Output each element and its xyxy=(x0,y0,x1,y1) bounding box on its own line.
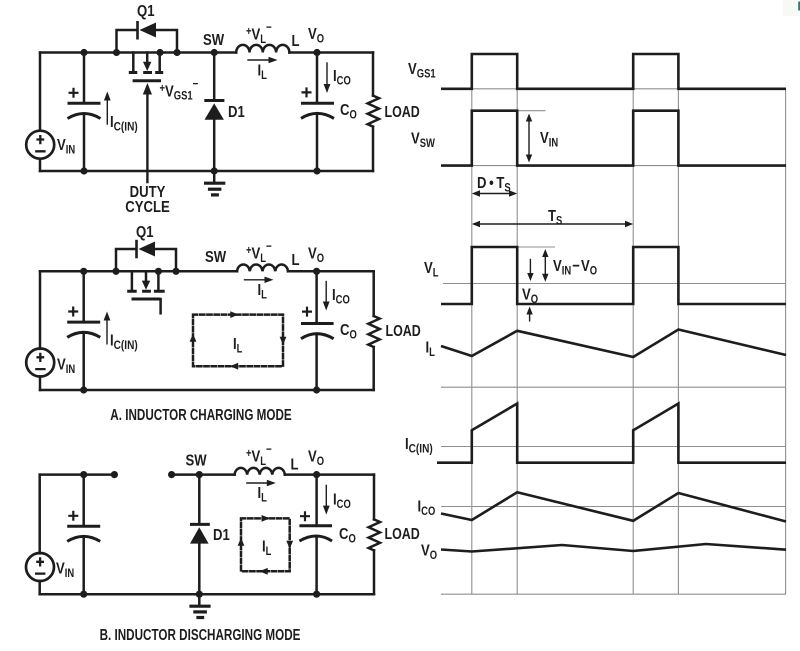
waveform VGS1 xyxy=(441,54,786,89)
current arrow IC(IN) (main) xyxy=(106,99,108,124)
junction D1 bottom (main) xyxy=(211,167,218,174)
capacitor CIN (main) xyxy=(83,53,86,104)
voltage source VIN (B) xyxy=(26,553,54,581)
svg-text:D1: D1 xyxy=(228,104,245,121)
node V0 junction (A) xyxy=(313,268,320,275)
voltage source VIN (A) xyxy=(26,349,54,377)
transistor Q1 (main) body diode xyxy=(117,30,178,53)
svg-text:A. INDUCTOR CHARGING MODE: A. INDUCTOR CHARGING MODE xyxy=(110,405,291,423)
svg-text:SW: SW xyxy=(203,32,224,49)
current arrow ICO (B) xyxy=(325,485,327,508)
transistor Q1 (main) MOSFET xyxy=(132,53,135,71)
junction Q1 body (main) xyxy=(173,49,180,56)
waveform IL xyxy=(441,330,786,358)
arrow V0 up xyxy=(529,313,531,322)
wire top rail main xyxy=(40,51,373,54)
wire top rail B left segment xyxy=(40,473,115,476)
svg-text:L: L xyxy=(291,456,299,473)
svg-text:SW: SW xyxy=(186,452,207,469)
junction C0 bottom (main) xyxy=(313,167,320,174)
junction CIN top (A) xyxy=(80,268,87,275)
junction CIN bottom (main) xyxy=(80,167,87,174)
inductor L (main) xyxy=(236,45,289,53)
gridline vertical t3 xyxy=(677,54,679,594)
svg-text:Q1: Q1 xyxy=(136,224,154,241)
wire top rail B right segment xyxy=(172,473,374,476)
junction CIN top (B) xyxy=(80,471,87,478)
svg-text:D1: D1 xyxy=(213,527,230,544)
wire bottom rail A xyxy=(40,389,374,392)
waveform VSW xyxy=(441,111,786,166)
node V0 junction (B) xyxy=(313,471,320,478)
node SW junction (main) xyxy=(211,49,218,56)
waveform ICO xyxy=(441,492,786,521)
wire left branch B xyxy=(38,475,41,595)
arrow V0 down xyxy=(529,259,531,275)
wire bottom rail B xyxy=(40,593,374,596)
reference line VL top xyxy=(518,246,555,248)
current arrow IL (main) xyxy=(248,59,270,61)
divider line IL/ICIN xyxy=(441,386,786,388)
diode D1 (main) xyxy=(213,53,216,101)
junction Q1 drain (main) xyxy=(156,49,163,56)
dashed loop IL (A) xyxy=(193,315,283,367)
wire top rail A xyxy=(40,270,374,273)
current arrow IL (B) xyxy=(247,482,269,484)
gridline right edge xyxy=(785,89,787,594)
waveform VL xyxy=(441,247,786,304)
junction C0 bottom (B) xyxy=(313,591,320,598)
capacitor C0 (B) xyxy=(315,475,318,526)
baseline bottom xyxy=(441,593,786,595)
wire left branch main xyxy=(39,53,42,172)
junction CIN bottom (A) xyxy=(80,386,87,393)
dashed loop IL (B) xyxy=(241,518,290,571)
resistor LOAD (main) xyxy=(372,53,375,96)
junction Q1 drain (A) xyxy=(155,268,162,275)
transistor Q1 (A) body diode xyxy=(116,249,176,271)
svg-text:L: L xyxy=(292,33,300,50)
svg-text:L: L xyxy=(292,252,300,269)
svg-text:LOAD: LOAD xyxy=(385,526,420,544)
capacitor CIN (A) xyxy=(82,271,85,322)
zero line VSW xyxy=(441,165,786,167)
resistor LOAD (A) xyxy=(372,271,375,316)
current arrow IC(IN) (A) xyxy=(106,319,108,344)
current arrow ICO (A) xyxy=(325,282,327,304)
junction Q1 body (A) xyxy=(172,268,179,275)
dimension arrow D.TS xyxy=(477,193,512,195)
waveform VO xyxy=(441,544,786,552)
voltage source VIN (main) xyxy=(26,131,54,159)
junction C0 bottom (A) xyxy=(313,386,320,393)
zero line VL xyxy=(443,283,786,285)
zero line ICIN xyxy=(441,446,786,448)
gridline vertical t0 xyxy=(471,54,473,594)
open switch terminal right (B) xyxy=(168,471,175,478)
wire bottom rail main xyxy=(40,170,373,173)
open switch terminal left (B) xyxy=(111,471,118,478)
ground (B) xyxy=(198,594,201,604)
dimension arrow TS xyxy=(477,223,628,225)
svg-text:SW: SW xyxy=(205,249,226,266)
waveform ICIN xyxy=(437,404,786,463)
junction Q1 source (main) xyxy=(113,49,120,56)
svg-text:B. INDUCTOR DISCHARGING MODE: B. INDUCTOR DISCHARGING MODE xyxy=(100,625,301,643)
inductor L (B) xyxy=(235,468,285,475)
svg-text:CYCLE: CYCLE xyxy=(125,199,170,216)
svg-text:Q1: Q1 xyxy=(137,3,155,20)
dimension arrow VIN xyxy=(528,119,530,157)
capacitor C0 (main) xyxy=(316,53,319,104)
gate stub (A) xyxy=(159,299,162,313)
svg-text:LOAD: LOAD xyxy=(385,104,420,122)
gridline vertical t1 xyxy=(516,54,518,594)
ground (main) xyxy=(213,171,216,181)
gridline vertical t2 xyxy=(632,54,634,594)
gate drive arrow DUTY CYCLE (main) xyxy=(146,94,148,182)
zero line ICO xyxy=(441,506,786,508)
capacitor C0 (A) xyxy=(315,271,318,323)
capacitor CIN (B) xyxy=(82,475,85,527)
resistor LOAD (B) xyxy=(373,475,376,520)
junction CIN bottom (B) xyxy=(80,591,87,598)
inductor L (A) xyxy=(237,264,288,271)
transistor Q1 (A) MOSFET xyxy=(131,271,134,289)
svg-text:LOAD: LOAD xyxy=(386,323,421,341)
junction Q1 source (A) xyxy=(112,268,119,275)
dimension arrow VIN-V0 xyxy=(544,254,546,277)
junction D1 bottom (B) xyxy=(196,591,203,598)
current arrow IL (A) xyxy=(245,279,267,281)
zero line VGS1 xyxy=(441,88,786,90)
node SW junction (B) xyxy=(196,471,203,478)
node V0 junction (main) xyxy=(313,49,320,56)
current arrow ICO (main) xyxy=(326,63,328,86)
wire left branch A xyxy=(39,271,42,390)
junction CIN top (main) xyxy=(80,49,87,56)
decorative corner mark xyxy=(783,0,800,16)
diode D1 (B) xyxy=(198,475,201,525)
reference line VSW top xyxy=(517,110,545,112)
